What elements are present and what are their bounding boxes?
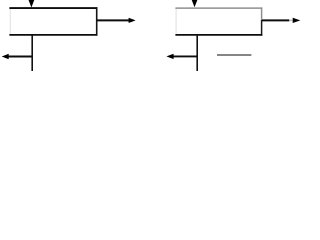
- arrowhead: B2 lower-left (left arrow): [166, 54, 173, 59]
- block B1 bottom border: [9, 34, 97, 36]
- wire: detached segment right of B2 vertical: [217, 54, 251, 56]
- block B2 right border lower: [261, 20, 263, 36]
- wire: B2 output right: [262, 19, 289, 21]
- block B1 right border: [96, 7, 98, 35]
- block B2 right border upper: [261, 7, 263, 20]
- arrowhead: B2 output right: [293, 18, 301, 23]
- wire: B1 lower-left horizontal: [9, 56, 33, 58]
- wire: vertical below B1: [31, 35, 33, 71]
- arrowhead: B1 output right: [129, 18, 136, 23]
- block B2 left border: [175, 9, 177, 35]
- block B2 bottom border: [175, 34, 262, 36]
- arrowhead: B1 lower-left (left arrow): [2, 54, 9, 59]
- wire: B1 output right: [97, 19, 129, 21]
- wire: B2 output right faint tail: [289, 19, 292, 21]
- block B1: [9, 7, 97, 35]
- block B2: [175, 7, 262, 35]
- block B2 top border: [175, 7, 262, 9]
- arrowhead into B2 top (down arrow): [192, 0, 198, 7]
- wire: B2 lower-left horizontal: [174, 55, 198, 57]
- block B1 left border: [9, 9, 11, 35]
- arrowhead into B1 top (down arrow): [28, 0, 34, 8]
- block B1 top border: [9, 7, 97, 9]
- wire: vertical below B2: [196, 35, 198, 71]
